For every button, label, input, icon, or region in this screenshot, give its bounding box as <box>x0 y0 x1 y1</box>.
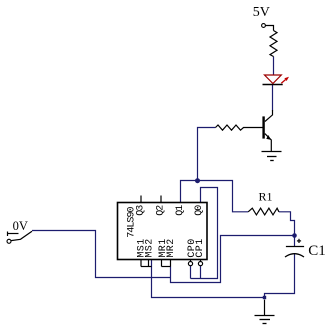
svg-text:0V: 0V <box>13 219 28 233</box>
svg-text:Q2: Q2 <box>156 205 167 216</box>
svg-text:Q3: Q3 <box>136 205 147 216</box>
svg-text:Q1: Q1 <box>175 205 186 216</box>
svg-text:MR2: MR2 <box>166 238 177 257</box>
svg-text:Q0: Q0 <box>194 205 205 216</box>
svg-text:C1: C1 <box>308 243 326 259</box>
svg-text:5V: 5V <box>253 5 270 20</box>
svg-text:CP1: CP1 <box>195 238 206 257</box>
svg-text:MS2: MS2 <box>145 238 156 257</box>
svg-text:R1: R1 <box>259 190 273 204</box>
